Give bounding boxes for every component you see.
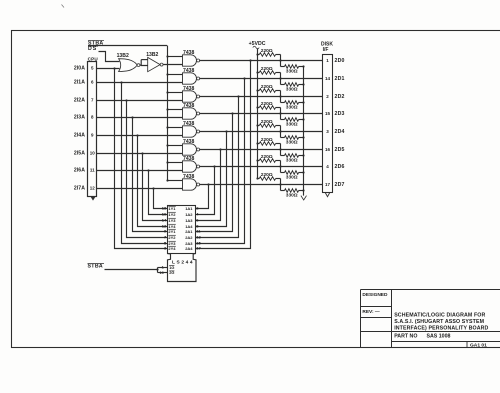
sheet border frame: [12, 31, 500, 348]
svg-text:2: 2: [196, 205, 199, 210]
junction row 2D6 / LS244 riser: [213, 165, 215, 167]
junction GND bus row 2: [302, 101, 304, 103]
junction 2I5A / fan: [141, 152, 143, 154]
svg-text:2A2: 2A2: [185, 235, 193, 240]
junction GND bus row 6: [302, 171, 304, 173]
svg-text:2D2: 2D2: [335, 94, 345, 100]
junction +5V bus row 7: [256, 177, 258, 179]
wire LS244 2A3 riser to row 2D1: [196, 79, 245, 244]
junction 2I7A / fan: [152, 187, 154, 189]
wire fan 2I6A to LS244 1Y2: [149, 171, 168, 215]
resistor 220Ω (row 7): [259, 177, 275, 181]
junction +5V bus row 0: [256, 53, 258, 55]
junction GND bus row 3: [302, 118, 304, 120]
wire fan 2I7A to LS244 1Y1: [154, 189, 168, 209]
svg-text:3: 3: [164, 245, 167, 250]
wire DS to NOR U1 input: [99, 52, 120, 62]
svg-text:7: 7: [164, 234, 167, 239]
resistor 220Ω (row 4): [259, 124, 275, 128]
svg-text:2D6: 2D6: [335, 164, 345, 170]
NAND gate G3 7438: [183, 91, 197, 102]
junction enable bus G2: [166, 73, 168, 75]
net STBA (bottom label): [88, 263, 105, 265]
svg-text:14: 14: [325, 76, 331, 81]
wire G5 output to DISK row 2D4: [200, 131, 323, 133]
wire LS244 1A4 riser to row 2D4: [196, 132, 227, 227]
junction STBA enable: [156, 268, 158, 270]
junction GND bus row 0: [302, 65, 304, 67]
junction 2I6A / fan: [147, 169, 149, 171]
svg-text:330Ω: 330Ω: [286, 87, 298, 93]
svg-text:REV: —: REV: —: [362, 309, 380, 315]
wire G6 output to DISK row 2D5: [200, 149, 323, 151]
svg-text:220Ω: 220Ω: [261, 84, 273, 90]
wire fan 2I4A to LS244 1Y4: [138, 136, 168, 227]
svg-text:CPU: CPU: [88, 57, 99, 62]
resistor 220Ω (row 3): [259, 106, 275, 110]
svg-text:+5VDC: +5VDC: [249, 41, 266, 47]
svg-text:330Ω: 330Ω: [286, 175, 298, 181]
svg-text:2I7A: 2I7A: [74, 186, 85, 192]
wire G8 output to DISK row 2D7: [200, 184, 323, 186]
wire 2I3A row: [97, 117, 183, 119]
junction row 2D7 / LS244 riser: [207, 183, 209, 185]
svg-text:2I3A: 2I3A: [74, 115, 85, 121]
NAND gate G2 7438: [183, 73, 197, 84]
drawing number box: [466, 342, 468, 348]
svg-text:2I0A: 2I0A: [74, 66, 85, 72]
wire enable tap gate G2: [168, 74, 183, 76]
junction enable bus G7: [166, 161, 168, 163]
resistor 220Ω (row 2): [259, 89, 275, 93]
junction 2I1A / fan: [120, 81, 122, 83]
junction row 2D3 / LS244 riser: [231, 112, 233, 114]
net STBA (top label, active-low): [88, 40, 104, 42]
wire G2 output to DISK row 2D1: [200, 78, 323, 80]
wire STBA to LS244 G pins: [105, 269, 158, 271]
resistor 330Ω (row 7): [280, 185, 282, 191]
wire inverter output to gate G1 input: [163, 64, 182, 66]
junction row node 3: [279, 112, 281, 114]
junction 2I0A / fan: [113, 67, 115, 69]
wire 2I1A row: [97, 82, 183, 84]
svg-text:2Y2: 2Y2: [168, 235, 176, 240]
svg-text:1Y2: 1Y2: [168, 212, 176, 217]
svg-text:14: 14: [162, 217, 167, 222]
resistor 220Ω (row 0): [259, 53, 275, 57]
svg-text:2D1: 2D1: [335, 76, 345, 82]
junction row node 0: [279, 59, 281, 61]
junction row 2D5 / LS244 riser: [219, 148, 221, 150]
svg-text:2D0: 2D0: [335, 58, 345, 64]
svg-text:330Ω: 330Ω: [286, 140, 298, 146]
net DS label (active-low): [88, 45, 98, 47]
svg-text:11: 11: [196, 228, 201, 233]
svg-text:6: 6: [196, 217, 199, 222]
wire G3 output to DISK row 2D2: [200, 96, 323, 98]
wire LS244 1A1 riser to row 2D7: [196, 185, 209, 209]
svg-text:2A4: 2A4: [185, 246, 193, 251]
junction row 2D0 / LS244 riser: [249, 59, 251, 61]
svg-text:18: 18: [162, 205, 167, 210]
svg-text:2Y1: 2Y1: [168, 229, 176, 234]
junction GND bus row 7: [302, 189, 304, 191]
svg-text:17: 17: [325, 182, 331, 187]
wire 2I0A row: [97, 68, 120, 70]
svg-text:330Ω: 330Ω: [286, 158, 298, 164]
junction GND bus row 1: [302, 83, 304, 85]
svg-text:2D7: 2D7: [335, 182, 345, 188]
wire enable tap gate G8: [168, 180, 183, 182]
junction +5V bus row 4: [256, 124, 258, 126]
junction enable bus G5: [166, 126, 168, 128]
svg-text:INTERFACE) PERSONALITY BOARD: INTERFACE) PERSONALITY BOARD: [394, 326, 488, 332]
wire enable tap gate G4: [168, 109, 183, 111]
wire fan 2I2A to LS244 2Y2: [127, 101, 168, 238]
resistor 330Ω (row 6): [280, 167, 282, 173]
svg-text:6: 6: [91, 80, 94, 85]
svg-text:12: 12: [90, 186, 96, 191]
wire enable tap gate G7: [168, 162, 183, 164]
resistor 220Ω (row 1): [259, 71, 275, 75]
svg-text:16: 16: [325, 147, 331, 152]
junction +5V bus row 3: [256, 106, 258, 108]
svg-text:4: 4: [196, 211, 199, 216]
svg-text:330Ω: 330Ω: [286, 122, 298, 128]
wire NOR output jog: [140, 64, 141, 66]
svg-text:2I1A: 2I1A: [74, 80, 85, 86]
NAND gate G4 7438: [183, 108, 197, 119]
svg-text:2I6A: 2I6A: [74, 168, 85, 174]
svg-text:220Ω: 220Ω: [261, 119, 273, 125]
wire enable tap gate G3: [168, 92, 183, 94]
svg-text:13: 13: [196, 234, 201, 239]
svg-text:4: 4: [326, 164, 329, 169]
svg-text:2D4: 2D4: [335, 129, 345, 135]
svg-text:DS: DS: [88, 46, 97, 52]
junction enable bus G4: [166, 108, 168, 110]
resistor 330Ω (row 5): [280, 150, 282, 156]
svg-text:1A2: 1A2: [185, 212, 193, 217]
svg-text:3: 3: [326, 129, 329, 134]
LS244 enable stubs: [158, 267, 168, 269]
junction row node 7: [279, 183, 281, 185]
connector CPU bottom arrow: [91, 197, 95, 201]
wire fan 2I0A to LS244 2Y4: [115, 69, 168, 249]
buffer U2 74LS244 main body: [168, 206, 196, 254]
svg-text:S.A.S.I. (SHUGART ASSO SYSTEM: S.A.S.I. (SHUGART ASSO SYSTEM: [394, 319, 484, 325]
junction row node 1: [279, 77, 281, 79]
junction GND bus row 4: [302, 136, 304, 138]
junction row 2D1 / LS244 riser: [243, 77, 245, 79]
resistor 330Ω (row 0): [280, 61, 282, 67]
wire STBA enable bus vertical: [167, 46, 169, 181]
svg-text:5: 5: [91, 66, 94, 71]
svg-text:220Ω: 220Ω: [261, 66, 273, 72]
wire STBA to enable bus: [88, 45, 167, 47]
junction +5V bus row 2: [256, 89, 258, 91]
resistor 220Ω (row 5): [259, 142, 275, 146]
junction row 2D4 / LS244 riser: [225, 130, 227, 132]
svg-text:2: 2: [326, 94, 329, 99]
junction 2I3A / fan: [131, 116, 133, 118]
junction enable bus G1: [166, 55, 168, 57]
svg-text:220Ω: 220Ω: [261, 101, 273, 107]
svg-text:1G: 1G: [169, 265, 174, 270]
resistor 330Ω (row 1): [280, 79, 282, 85]
svg-text:330Ω: 330Ω: [286, 105, 298, 111]
svg-text:2D5: 2D5: [335, 147, 345, 153]
NAND gate G1 7438: [183, 55, 197, 66]
junction row node 2: [279, 95, 281, 97]
wire enable tap gate G6: [168, 145, 183, 147]
connector CPU body: [88, 62, 97, 197]
NOR gate 13B2: [119, 59, 138, 72]
junction +5V bus row 6: [256, 159, 258, 161]
svg-text:330Ω: 330Ω: [286, 69, 298, 75]
svg-text:1A1: 1A1: [185, 206, 193, 211]
resistor 330Ω (row 3): [280, 114, 282, 120]
svg-text:17: 17: [196, 245, 201, 250]
ground symbol: [303, 191, 305, 196]
junction +5V bus row 5: [256, 142, 258, 144]
svg-text:7: 7: [91, 98, 94, 103]
svg-text:9: 9: [164, 228, 167, 233]
NAND gate G8 7438: [183, 179, 197, 190]
svg-text:1Y1: 1Y1: [168, 206, 176, 211]
svg-text:220Ω: 220Ω: [261, 48, 273, 54]
svg-text:2I5A: 2I5A: [74, 151, 85, 157]
svg-text:1Y3: 1Y3: [168, 218, 176, 223]
wire LS244 1A2 riser to row 2D6: [196, 167, 215, 215]
svg-text:2I4A: 2I4A: [74, 133, 85, 139]
wire GND bus: [303, 67, 305, 191]
wire +5V bus: [257, 48, 259, 178]
NAND gate G6 7438: [183, 144, 197, 155]
resistor 330Ω (row 4): [280, 132, 282, 138]
wire G1 output to DISK row 2D0: [200, 60, 323, 62]
connector DISK I/F bottom arrow: [325, 193, 330, 197]
wire G4 output to DISK row 2D3: [200, 113, 323, 115]
LS244 enable body: [168, 260, 197, 282]
LS244 notch section: [168, 254, 171, 261]
junction GND bus row 5: [302, 154, 304, 156]
wire LS244 2A4 riser to row 2D0: [196, 61, 251, 249]
svg-text:2G: 2G: [169, 270, 174, 275]
wire 2I4A row: [97, 135, 183, 137]
svg-text:220Ω: 220Ω: [261, 172, 273, 178]
NAND gate G7 7438: [183, 161, 197, 172]
svg-text:SAS 1008: SAS 1008: [427, 334, 451, 340]
svg-text:16: 16: [162, 211, 167, 216]
svg-text:STBA: STBA: [88, 264, 104, 270]
svg-text:2A1: 2A1: [185, 229, 193, 234]
svg-text:15: 15: [325, 111, 331, 116]
svg-text:2I2A: 2I2A: [74, 98, 85, 104]
junction row node 6: [279, 165, 281, 167]
svg-text:9: 9: [91, 133, 94, 138]
title block outline: [360, 290, 362, 348]
junction enable bus G6: [166, 144, 168, 146]
stray pen mark: [62, 5, 65, 8]
wire 2I6A row: [97, 170, 183, 172]
svg-text:11: 11: [90, 168, 95, 173]
wire G7 output to DISK row 2D6: [200, 166, 323, 168]
junction row node 4: [279, 130, 281, 132]
connector DISK I/F body: [323, 55, 333, 193]
power +5VDC squiggle: [253, 46, 259, 49]
svg-text:220Ω: 220Ω: [261, 154, 273, 160]
junction row node 5: [279, 148, 281, 150]
svg-text:2D3: 2D3: [335, 111, 345, 117]
wire 2I7A row: [97, 188, 183, 190]
svg-text:330Ω: 330Ω: [286, 193, 298, 199]
svg-text:2Y4: 2Y4: [168, 246, 176, 251]
wire 2I2A row: [97, 100, 183, 102]
wire fan 2I3A to LS244 2Y1: [133, 118, 168, 232]
wire LS244 2A2 riser to row 2D2: [196, 97, 239, 238]
wire 2I5A row: [97, 153, 183, 155]
svg-text:10: 10: [90, 151, 96, 156]
wire fan 2I1A to LS244 2Y3: [122, 83, 168, 244]
svg-text:SCHEMATIC/LOGIC DIAGRAM FOR: SCHEMATIC/LOGIC DIAGRAM FOR: [394, 313, 485, 319]
resistor 330Ω (row 2): [280, 97, 282, 103]
svg-text:PART NO: PART NO: [394, 334, 417, 340]
svg-text:8: 8: [91, 115, 94, 120]
junction +5V bus row 1: [256, 71, 258, 73]
junction 2I2A / fan: [125, 99, 127, 101]
wire LS244 1A3 riser to row 2D5: [196, 150, 221, 221]
wire enable tap gate G5: [168, 127, 183, 129]
svg-text:1A3: 1A3: [185, 218, 193, 223]
svg-text:220Ω: 220Ω: [261, 137, 273, 143]
svg-text:I/F: I/F: [323, 47, 329, 53]
wire enable tap gate G1: [168, 56, 183, 58]
junction 2I4A / fan: [136, 134, 138, 136]
junction row 2D2 / LS244 riser: [237, 95, 239, 97]
NAND gate G5 7438: [183, 126, 197, 137]
svg-text:DESIGNED: DESIGNED: [362, 292, 388, 298]
inverter 13B2: [148, 57, 160, 71]
svg-text:GA1 01: GA1 01: [470, 342, 487, 348]
resistor 220Ω (row 6): [259, 159, 275, 163]
junction enable bus G8: [166, 179, 168, 181]
junction enable bus G3: [166, 91, 168, 93]
svg-text:LS244: LS244: [172, 259, 194, 265]
wire fan 2I5A to LS244 1Y3: [143, 154, 168, 221]
svg-text:1: 1: [326, 58, 329, 63]
wire LS244 2A1 riser to row 2D3: [196, 114, 233, 232]
